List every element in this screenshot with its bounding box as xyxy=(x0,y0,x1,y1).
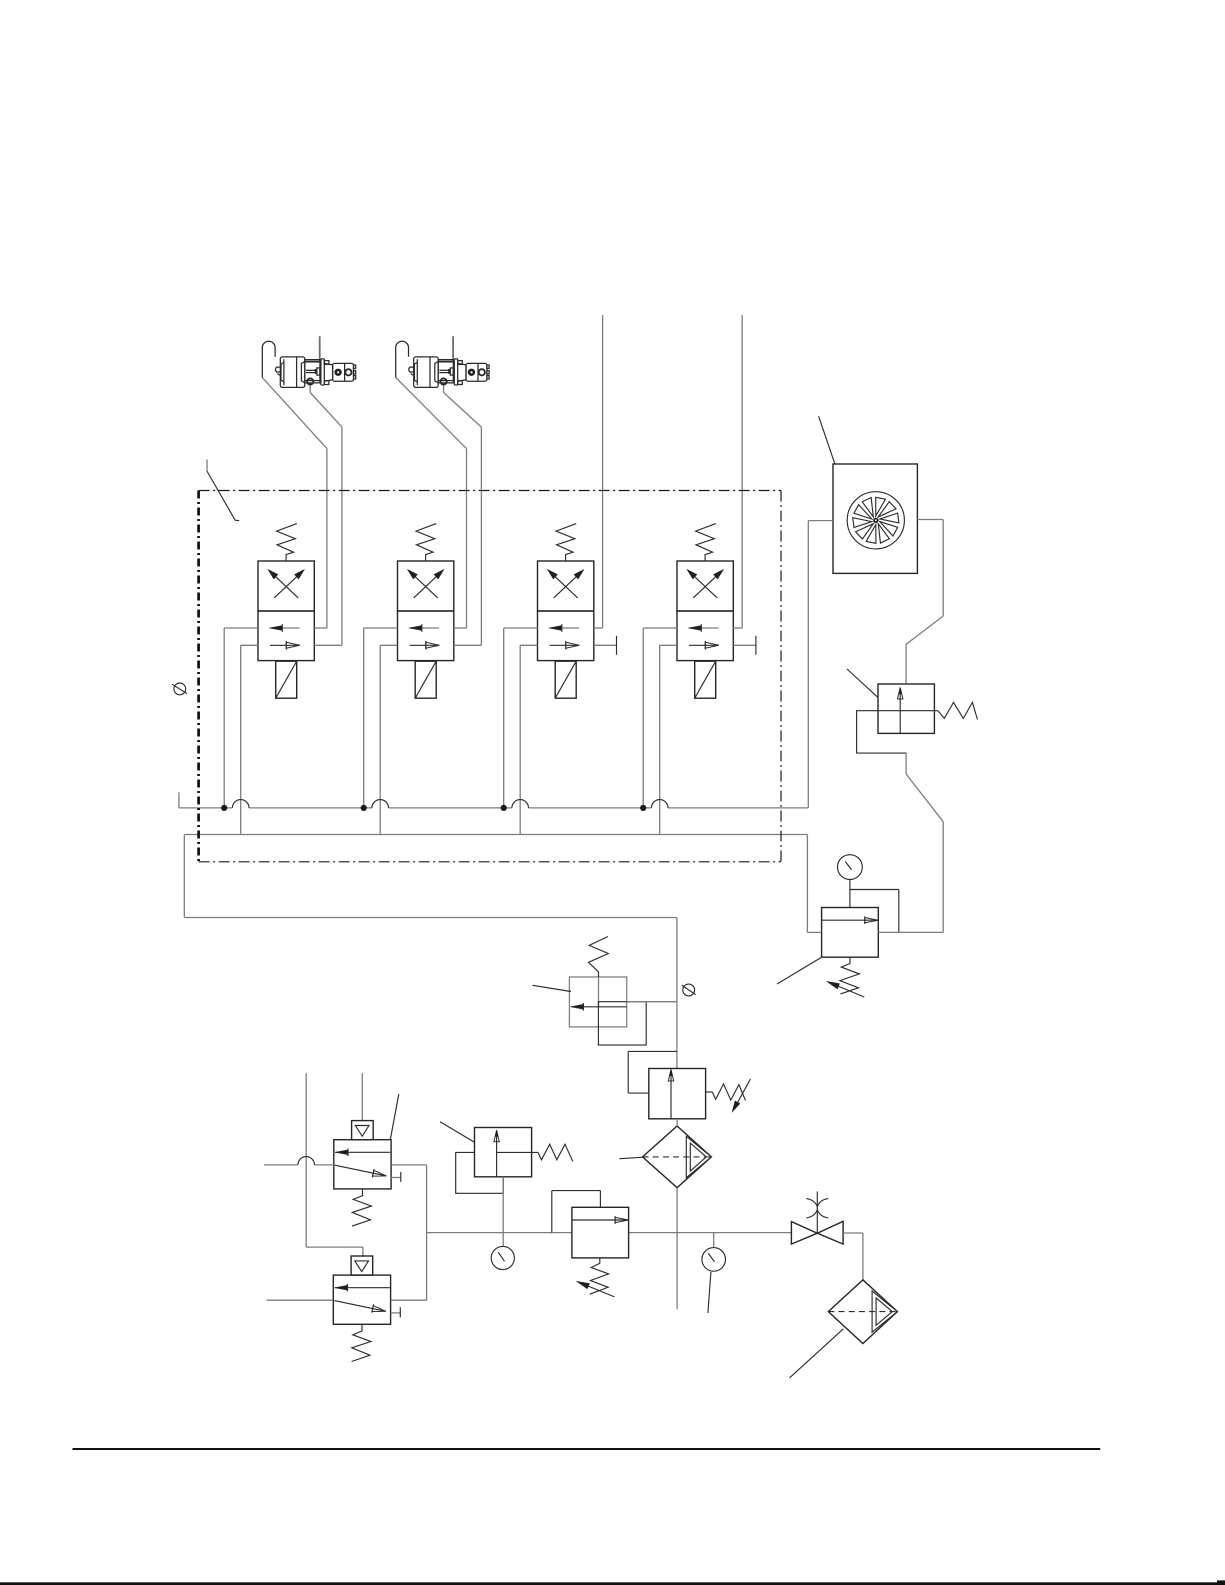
pilot valve V2 xyxy=(398,524,454,699)
wire valve V2 ports A/B to bus xyxy=(364,628,398,835)
wire R2 to filter F1 xyxy=(676,1119,678,1126)
pipe MV1 to filter F2 xyxy=(843,1233,863,1280)
supply bus (upper manifold rail) xyxy=(179,792,808,808)
pipe AV2 outlet xyxy=(391,1299,427,1301)
wire valve V3 ports A/B to bus xyxy=(504,628,538,835)
wire valve V4 output line to top xyxy=(733,315,742,628)
gauge G3 xyxy=(702,1233,726,1272)
turbine / fan motor xyxy=(833,464,917,573)
leader line to R1 xyxy=(777,957,822,984)
pilot valve V1 xyxy=(258,524,314,699)
manual shut-off valve MV1 xyxy=(791,1191,843,1244)
leader line to AV1 xyxy=(390,1094,398,1139)
crossover arcs on supply bus xyxy=(232,800,668,808)
gauge G1 xyxy=(838,855,863,908)
pilot bus (lower manifold rail) xyxy=(184,834,807,836)
air valve AV1 xyxy=(334,1121,401,1227)
regulator R2 xyxy=(649,1069,751,1119)
wire RV2 to main pipe xyxy=(502,1177,504,1246)
crossover arc on AV1 pipe xyxy=(298,1157,315,1165)
wire turbine to relief valve RV1 xyxy=(906,520,943,685)
pipe AV1 outlet xyxy=(391,1165,427,1300)
wire regulator R1 outlet xyxy=(878,931,943,933)
pilot line 2 xyxy=(361,1073,363,1120)
wire pilot bus to regulator R1 xyxy=(807,835,821,933)
spray gun 2 xyxy=(396,336,489,387)
offset body SV1 xyxy=(598,1002,646,1045)
wire valve V4 ports A/B to bus xyxy=(643,628,677,835)
wire valve V3 output line to top xyxy=(594,315,603,628)
leader line to RV2 xyxy=(440,1122,475,1143)
regulator R1 xyxy=(822,908,879,998)
wire valve V1 ports A/B to bus xyxy=(224,628,258,835)
air valve AV2 xyxy=(333,1256,400,1362)
regulator R3 xyxy=(572,1207,629,1297)
pipe to AV1 xyxy=(264,1164,334,1166)
wire valve V1 to gun 1 (atomizing air) xyxy=(310,384,342,645)
wire valve V2 to gun 2 (atomizing air) xyxy=(444,384,482,645)
feedback loop R3 xyxy=(552,1191,601,1233)
leader line to turbine xyxy=(819,416,835,464)
feedback loop R1 xyxy=(850,890,899,933)
shut-off valve SV1 xyxy=(569,937,626,1027)
blocked port valve V4 xyxy=(733,636,756,655)
wire valve V1 to gun 1 (cap air) xyxy=(262,378,327,629)
footer rule xyxy=(73,1448,1101,1450)
spray gun 1 xyxy=(262,336,355,387)
leader line to manifold xyxy=(207,460,239,521)
filter F2 (air inlet) xyxy=(828,1280,897,1344)
wire supply bus to turbine xyxy=(808,521,833,808)
relief valve RV1 xyxy=(857,684,978,753)
diameter symbol 2 xyxy=(682,984,696,996)
wire pilot bus to soft-start chain xyxy=(184,835,677,1069)
diameter symbol 1 xyxy=(172,683,187,695)
pilot valve V3 xyxy=(538,524,594,699)
leader line to G3 xyxy=(708,1272,711,1313)
leader line to SV1 xyxy=(532,985,571,991)
filter F1 drain line xyxy=(676,1188,678,1310)
junction dots on supply bus xyxy=(221,805,646,811)
pilot line 1 xyxy=(306,1073,363,1256)
main air pipe xyxy=(427,1232,792,1234)
page bottom bar xyxy=(0,1580,1225,1585)
wire SV1 outlet xyxy=(627,1001,677,1003)
pilot valve V4 xyxy=(677,524,733,699)
pipe to AV2 xyxy=(267,1299,334,1301)
leader line to F1 xyxy=(619,1157,643,1159)
feedback loop R2 xyxy=(628,1051,677,1093)
blocked port valve V3 xyxy=(594,636,617,655)
valve manifold enclosure (dash-dot) xyxy=(199,491,781,862)
filter F1 xyxy=(643,1126,712,1188)
wire valve V2 to gun 2 (cap air) xyxy=(396,378,467,629)
relief valve RV2 xyxy=(456,1128,573,1194)
wire RV1 to regulator R1 xyxy=(906,753,943,933)
gauge G2 xyxy=(491,1246,514,1269)
leader line to F2 xyxy=(790,1329,844,1378)
leader line to RV1 xyxy=(847,669,878,697)
